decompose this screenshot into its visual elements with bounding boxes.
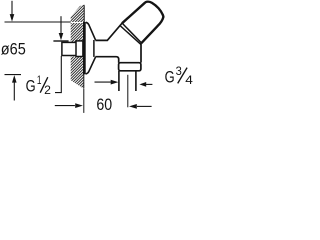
valve body bottom outline — [95, 57, 118, 63]
flange (escutcheon) left bar — [83, 22, 86, 74]
wall hatch lower patch — [71, 57, 84, 89]
svg-text:ø65: ø65 — [1, 40, 26, 59]
valve body top outline — [95, 23, 122, 40]
svg-text:3: 3 — [176, 65, 182, 78]
ø65 top arrow — [11, 1, 13, 15]
flange right face — [93, 40, 95, 57]
flange bottom slant — [86, 57, 96, 74]
G1/2 short reference line — [53, 40, 68, 42]
svg-text:G: G — [165, 67, 175, 86]
60 right arrow — [137, 105, 152, 107]
G3/4 left arrow — [95, 81, 111, 83]
60 dimension extension line left (wall face) — [83, 89, 85, 113]
flange top slant — [86, 22, 96, 40]
svg-text:4: 4 — [185, 74, 193, 87]
knob outline (left edge, cap arc, right edge) — [122, 2, 163, 44]
valve body right outline — [140, 43, 142, 63]
wall hatch middle patch — [71, 23, 84, 42]
G1/2 arrow — [60, 16, 62, 33]
G3/4 right arrow — [146, 83, 152, 85]
inlet union box B — [76, 41, 83, 57]
G1/2 leader line — [55, 56, 61, 93]
svg-text:60: 60 — [96, 95, 112, 114]
wall face line — [83, 5, 85, 88]
dimension extension line bottom (ø65) — [5, 74, 22, 76]
wall hatch upper patch — [71, 5, 85, 22]
svg-text:G: G — [26, 76, 36, 95]
svg-text:2: 2 — [44, 84, 51, 97]
knob base double line — [122, 23, 141, 43]
ø65 bottom arrow — [13, 82, 15, 101]
outlet collar — [119, 63, 141, 71]
inlet nipple box A (in wall) — [62, 42, 77, 55]
60 dimension extension line right (spout axis) — [127, 75, 129, 108]
spout tube walls — [119, 71, 136, 91]
60 left arrow — [55, 105, 75, 107]
dimension extension line top (ø65) — [5, 21, 71, 23]
svg-text:1: 1 — [37, 74, 42, 87]
